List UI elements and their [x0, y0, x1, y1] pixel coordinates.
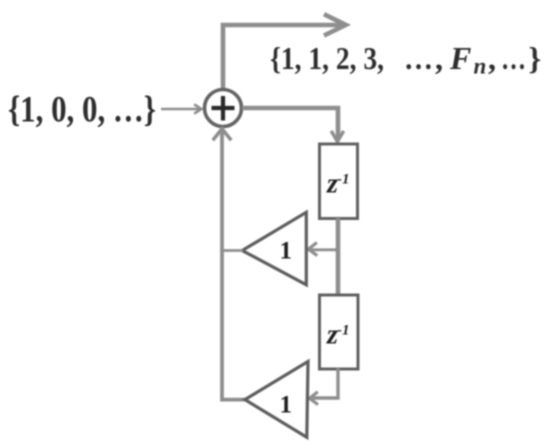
wire feedback vertical into adder	[213, 129, 246, 400]
svg-text:}: }	[529, 40, 542, 76]
node input label {1,0,0,...}	[8, 90, 156, 131]
node output label {1,1,2,3,...,Fn,...}	[270, 40, 541, 79]
adder (summing junction)	[205, 90, 242, 127]
svg-text:{1, 0, 0, …}: {1, 0, 0, …}	[8, 90, 156, 131]
delay block z^-1 upper	[320, 144, 358, 219]
wire adder to delay 1	[242, 108, 344, 142]
wire tap to gain 1 upper	[308, 243, 338, 256]
delay block z^-1 lower	[320, 295, 359, 369]
svg-text:…: …	[404, 40, 433, 76]
svg-text:,: ,	[488, 40, 496, 76]
svg-text:-1: -1	[337, 323, 350, 339]
svg-text:F: F	[449, 40, 471, 76]
svg-text:1: 1	[280, 238, 293, 265]
svg-text:,: ,	[435, 40, 443, 76]
svg-text:-1: -1	[337, 172, 350, 188]
gain triangle 1 upper	[242, 212, 306, 284]
wire input arrow	[161, 104, 201, 113]
wire output top (from adder up and right)	[223, 14, 346, 91]
svg-text:1: 1	[280, 392, 293, 419]
svg-text:n: n	[474, 54, 487, 79]
wire gain1 output to feedback line	[221, 249, 243, 252]
wire delay2 to gain 2	[310, 368, 339, 405]
svg-text:{1, 1, 2, 3,: {1, 1, 2, 3,	[270, 40, 384, 76]
gain triangle 2 lower	[245, 362, 308, 438]
svg-text:…: …	[501, 40, 526, 76]
wire delay1 to delay2	[336, 218, 341, 295]
